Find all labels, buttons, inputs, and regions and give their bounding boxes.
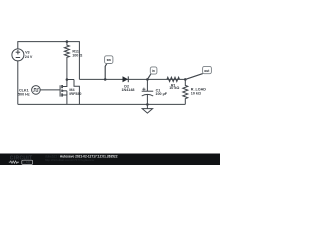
- svg-text:LAB: LAB: [23, 161, 31, 165]
- label CLK1 500 Hz: [18, 88, 30, 96]
- resistor R1: [167, 77, 180, 81]
- flag in: [147, 67, 157, 80]
- voltage source V3: [12, 49, 24, 61]
- footer bar: [0, 154, 220, 166]
- junction dot switch node: [66, 78, 69, 81]
- svg-text:10 kΩ: 10 kΩ: [191, 91, 201, 95]
- label D2 1N4148: [122, 85, 135, 93]
- capacitor C1: [142, 79, 154, 104]
- clock source CLK1: [32, 86, 41, 95]
- wire step to bottom rail: [74, 80, 79, 105]
- label R1 10 kOhm: [169, 83, 179, 90]
- footer CircuitLab logo: [9, 156, 33, 165]
- resistor R_LOAD: [183, 79, 188, 104]
- svg-text:100 Ω: 100 Ω: [72, 54, 82, 58]
- transistor M4 (NMOS): [60, 80, 67, 105]
- label C1 100 uF: [155, 89, 167, 97]
- ground: [142, 104, 152, 113]
- svg-text:V3: V3: [25, 50, 30, 54]
- svg-text:1N4148: 1N4148: [122, 88, 135, 92]
- junction dot in/C1: [146, 78, 149, 81]
- svg-text:sw: sw: [107, 58, 112, 62]
- svg-text:500 Hz: 500 Hz: [18, 93, 30, 97]
- wire switch node to diode and R1: [79, 78, 185, 80]
- svg-text:10 kΩ: 10 kΩ: [169, 86, 179, 90]
- svg-text:100 µF: 100 µF: [155, 92, 167, 96]
- diode D2: [123, 76, 129, 82]
- svg-text:http://circuitlab.com/c/7677/u: http://circuitlab.com/c/7677/ugbkvww: [45, 158, 95, 162]
- svg-text:24 V: 24 V: [25, 55, 33, 59]
- label V3 24 V: [25, 50, 33, 59]
- junction dot out/R_LOAD: [184, 78, 187, 81]
- wire V3 bottom to rail: [17, 61, 19, 105]
- label R11 100 Ohm: [72, 50, 82, 58]
- wire CLK1 to gate: [40, 89, 60, 91]
- flag sw: [105, 56, 113, 80]
- svg-text:IRF530: IRF530: [69, 92, 81, 96]
- junction dot sw flag: [104, 78, 107, 81]
- label R_LOAD 10 kOhm: [191, 88, 206, 96]
- node wire R11 bottom to step: [67, 79, 74, 81]
- bottom rail wire: [18, 103, 186, 105]
- flag out: [185, 66, 211, 79]
- junction dot ground: [146, 103, 149, 106]
- label M4 IRF530: [69, 88, 81, 96]
- resistor R11: [64, 42, 69, 80]
- svg-text:in: in: [152, 69, 155, 73]
- wire top rail: [18, 42, 80, 80]
- junction dot R11 top: [66, 40, 69, 43]
